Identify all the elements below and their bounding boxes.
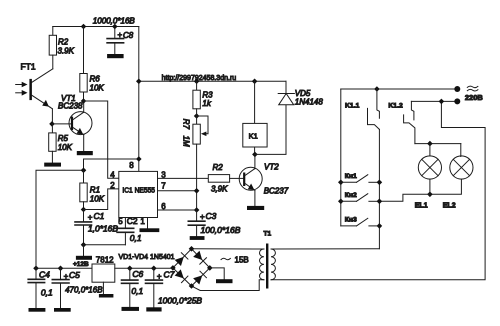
wire R3 to R7 xyxy=(196,109,198,124)
ground (bridge) xyxy=(216,279,233,283)
svg-text:VD1-VD4 1N5401: VD1-VD4 1N5401 xyxy=(119,254,175,261)
svg-text:5: 5 xyxy=(118,217,123,226)
label ~ 15V xyxy=(221,258,230,260)
svg-text:K1.2: K1.2 xyxy=(388,102,403,109)
ground (7812) xyxy=(99,294,114,298)
wire pin 7 xyxy=(158,190,197,192)
wire regulator input line xyxy=(115,267,173,269)
wire pin 3 xyxy=(158,177,209,179)
switch Kn3 xyxy=(341,218,380,226)
lamp EL2 xyxy=(450,156,473,179)
svg-text:C8: C8 xyxy=(123,31,134,40)
node dot C5 xyxy=(58,266,64,272)
resistor R5 xyxy=(49,124,73,163)
svg-text:7812: 7812 xyxy=(96,255,114,264)
svg-text:8: 8 xyxy=(129,161,134,170)
node dot C1 bottom xyxy=(81,242,87,248)
wire secondary bottom to bridge xyxy=(192,280,264,291)
ground (C6) xyxy=(122,307,140,311)
wire VT1 collector to pin 4 xyxy=(84,101,119,178)
node dot R1 bottom / C1 / pin2 xyxy=(81,207,87,213)
capacitor C8 xyxy=(107,27,134,55)
wire EL1 bottom xyxy=(429,179,431,194)
resistor R2 (3.9K, left) xyxy=(49,27,74,69)
capacitor C2 xyxy=(117,218,142,245)
wire +12V top rail xyxy=(53,26,139,28)
wire pin 6 xyxy=(158,209,197,211)
ground (VT1 emitter) xyxy=(77,151,93,155)
node dot bridge top xyxy=(189,246,195,252)
wire pin 1 to ground xyxy=(147,218,149,229)
ground (C5) xyxy=(54,308,71,312)
wire regulator ground xyxy=(102,282,104,294)
rectifier bridge edges xyxy=(173,249,210,286)
transformer T1 primary winding xyxy=(271,249,275,280)
transformer T1 secondary winding xyxy=(260,249,264,280)
node dot EL bottom xyxy=(427,192,433,198)
phototransistor FT1 xyxy=(29,69,52,124)
svg-text:3,9K: 3,9K xyxy=(211,185,228,194)
svg-text:K1.1: K1.1 xyxy=(345,102,360,109)
node dot top rail / C8 xyxy=(112,24,118,30)
node dot pin6 / C3 xyxy=(194,207,200,213)
node dot EL1 top xyxy=(427,141,433,147)
wire 220V rail 1 xyxy=(341,88,458,90)
capacitor C6 xyxy=(122,268,144,307)
capacitor C3 xyxy=(188,210,241,236)
wire R7 bottom to pins 7/6 xyxy=(196,144,198,210)
svg-text:0,1: 0,1 xyxy=(130,233,142,243)
transistor VT2 xyxy=(239,154,262,206)
node A (FT1 emitter / R5 / VT1 base) xyxy=(49,121,55,127)
svg-text:1М: 1М xyxy=(182,136,191,147)
wire URL +12V line xyxy=(139,80,286,82)
diode VD4 (lower-right) xyxy=(193,271,206,284)
light arrow 2 into FT1 xyxy=(16,90,28,96)
node dot rail2 drop xyxy=(439,99,445,105)
svg-text:+: + xyxy=(118,31,123,40)
svg-text:0,1: 0,1 xyxy=(41,287,53,297)
svg-text:10K: 10K xyxy=(90,195,105,204)
wire EL2 top lead xyxy=(460,144,462,157)
svg-text:+: + xyxy=(200,213,205,222)
svg-text:2: 2 xyxy=(110,181,115,190)
node dot URL/K1 xyxy=(252,79,258,85)
resistor R6 xyxy=(80,27,105,102)
node dot Kn3 right xyxy=(377,223,383,229)
trimmer R7 wiper loop xyxy=(197,116,208,136)
svg-text:10K: 10K xyxy=(90,84,105,93)
svg-text:K1: K1 xyxy=(249,131,258,140)
label AC squiggle xyxy=(467,86,478,91)
svg-text:+: + xyxy=(157,272,162,281)
node dot Kn1 left xyxy=(338,180,344,186)
svg-text:R1: R1 xyxy=(90,186,100,195)
svg-text:C4: C4 xyxy=(39,269,50,279)
diode VD5 xyxy=(278,89,323,107)
wire lamps return to Kn2 xyxy=(379,194,430,201)
svg-text:R2: R2 xyxy=(58,38,69,47)
svg-text:Кн3: Кн3 xyxy=(345,217,357,224)
svg-text:4: 4 xyxy=(110,171,115,180)
svg-text:3.9K: 3.9K xyxy=(58,47,75,56)
svg-text:R5: R5 xyxy=(58,134,69,143)
svg-text:15В: 15В xyxy=(235,256,249,265)
svg-text:Кн2: Кн2 xyxy=(345,192,357,199)
node dot C7 xyxy=(151,266,157,272)
ground (pin 1) xyxy=(140,228,160,232)
relay contact K1.1 xyxy=(368,89,380,129)
switch Kn1 xyxy=(341,175,380,183)
diode VD1 (upper-left) xyxy=(175,253,188,266)
wire C1/C2 ground rail xyxy=(84,244,126,246)
lamp EL1 xyxy=(418,156,441,179)
IC1 NE555 timer xyxy=(119,171,158,217)
node dot top rail / R6 xyxy=(81,24,87,30)
svg-text:7: 7 xyxy=(161,182,166,191)
svg-text:C7: C7 xyxy=(164,270,175,280)
ground (R5) xyxy=(44,163,61,167)
svg-text:EL1: EL1 xyxy=(415,202,428,209)
wire 220V rail 2 xyxy=(411,100,457,102)
ground (C3) xyxy=(190,236,205,240)
svg-text:BC238: BC238 xyxy=(58,102,83,111)
capacitor C5 xyxy=(52,268,103,308)
light arrow 1 into FT1 xyxy=(16,82,28,88)
svg-text:FT1: FT1 xyxy=(21,62,36,72)
node dot pin7 xyxy=(194,188,200,194)
wire pin 2 xyxy=(84,189,119,210)
resistor R2 (3,9K, at VT2) xyxy=(208,163,243,194)
svg-text:R2: R2 xyxy=(213,163,224,172)
svg-text:220В: 220В xyxy=(465,93,484,102)
wire K1.2 to lamps xyxy=(415,143,461,145)
transistor VT1 xyxy=(69,101,92,151)
switch Kn2 xyxy=(341,194,380,202)
wire VT1 base xyxy=(52,123,71,125)
svg-text:1,0*16В: 1,0*16В xyxy=(88,224,118,234)
svg-text:10K: 10K xyxy=(58,143,73,152)
node dot VT1 collector / R6 xyxy=(81,98,87,104)
svg-text:470,0*16В: 470,0*16В xyxy=(65,284,103,294)
capacitor C1 xyxy=(75,210,118,245)
svg-text:C2: C2 xyxy=(127,216,138,226)
wire regulator output line xyxy=(36,267,92,269)
wire primary top to Kn3 xyxy=(271,248,379,250)
wire primary bottom to 220V xyxy=(271,101,485,279)
wire EL1 top lead xyxy=(429,144,431,156)
svg-text:1000,0*25В: 1000,0*25В xyxy=(158,296,202,306)
node dot Kn2 left xyxy=(338,199,344,205)
terminal 220V line2 xyxy=(454,98,460,104)
wire R1 top to pin8 node xyxy=(84,159,139,170)
wire to ground bar xyxy=(83,245,85,256)
wire EL2 bottom xyxy=(430,179,462,194)
ground (C8) xyxy=(107,54,124,58)
resistor R1 xyxy=(80,170,105,209)
node dot R1 top xyxy=(81,168,87,174)
node dot pin8 line xyxy=(136,156,142,162)
regulator 7812 xyxy=(92,264,115,282)
transformer T1 core xyxy=(266,244,268,289)
svg-text:+12В: +12В xyxy=(73,261,89,268)
node dot C4 xyxy=(33,266,39,272)
svg-text:R6: R6 xyxy=(90,75,101,84)
svg-text:1k: 1k xyxy=(202,99,211,108)
wire K1.1 to buttons column xyxy=(378,129,380,248)
ground (VT2 emitter) xyxy=(247,206,264,210)
svg-text:C6: C6 xyxy=(132,269,143,279)
relay contact K1.2 xyxy=(404,101,415,143)
resistor R3 xyxy=(193,81,213,108)
svg-text:1N4148: 1N4148 xyxy=(295,98,324,107)
svg-text:1000,0*16В: 1000,0*16В xyxy=(93,16,136,25)
wire VD5 branch xyxy=(255,81,286,154)
svg-text:EL2: EL2 xyxy=(443,202,456,209)
svg-text:C5: C5 xyxy=(69,270,80,280)
node dot rail1/K1.1 xyxy=(374,86,380,92)
ground (C1/C2 rail) xyxy=(76,256,92,260)
relay K1 coil xyxy=(243,81,267,154)
node dot Kn2 right xyxy=(377,199,383,205)
node dot URL/vertical xyxy=(136,79,142,85)
svg-text:C1: C1 xyxy=(94,211,105,221)
trimmer R7 xyxy=(182,119,201,147)
svg-text:0,1: 0,1 xyxy=(131,286,143,296)
node dot R3/R7 wiper xyxy=(194,113,200,119)
wire +12V rail from regulator xyxy=(36,170,84,268)
node dot bridge bottom xyxy=(189,283,195,289)
svg-text:BC237: BC237 xyxy=(264,187,289,196)
wire bridge right to ground xyxy=(210,268,224,279)
svg-text:http://299792458.3dn.ru: http://299792458.3dn.ru xyxy=(162,75,237,82)
terminal 220V line1 xyxy=(454,86,460,92)
svg-text:C3: C3 xyxy=(206,211,217,221)
ground (C7) xyxy=(146,307,161,311)
svg-text:Кн1: Кн1 xyxy=(345,173,357,180)
wire left button column xyxy=(340,89,342,226)
ground (C4) xyxy=(29,308,46,312)
node dot K1 bottom / VD5 / VT2 collector xyxy=(252,152,258,158)
diode VD3 (lower-left) xyxy=(174,269,187,282)
svg-text:+: + xyxy=(64,272,69,281)
svg-text:T1: T1 xyxy=(264,230,272,237)
svg-text:+: + xyxy=(88,213,93,222)
node dot C6 xyxy=(127,266,133,272)
node dot Kn1 right xyxy=(377,180,383,186)
node dot bridge left xyxy=(170,265,176,271)
svg-text:100,0*16В: 100,0*16В xyxy=(201,225,241,235)
capacitor C7 xyxy=(146,268,203,307)
svg-text:VT2: VT2 xyxy=(264,163,279,172)
node dot URL/R3 xyxy=(194,79,200,85)
svg-text:R7: R7 xyxy=(182,119,191,130)
wire secondary top to bridge xyxy=(192,248,264,250)
capacitor C4 xyxy=(28,268,53,308)
diode VD2 (upper-right) xyxy=(193,251,206,264)
svg-text:IC1 NE555: IC1 NE555 xyxy=(122,186,155,195)
svg-text:1: 1 xyxy=(140,217,145,226)
wire +12V vertical to pin 8 xyxy=(138,27,140,172)
node dot bridge right xyxy=(207,265,213,271)
